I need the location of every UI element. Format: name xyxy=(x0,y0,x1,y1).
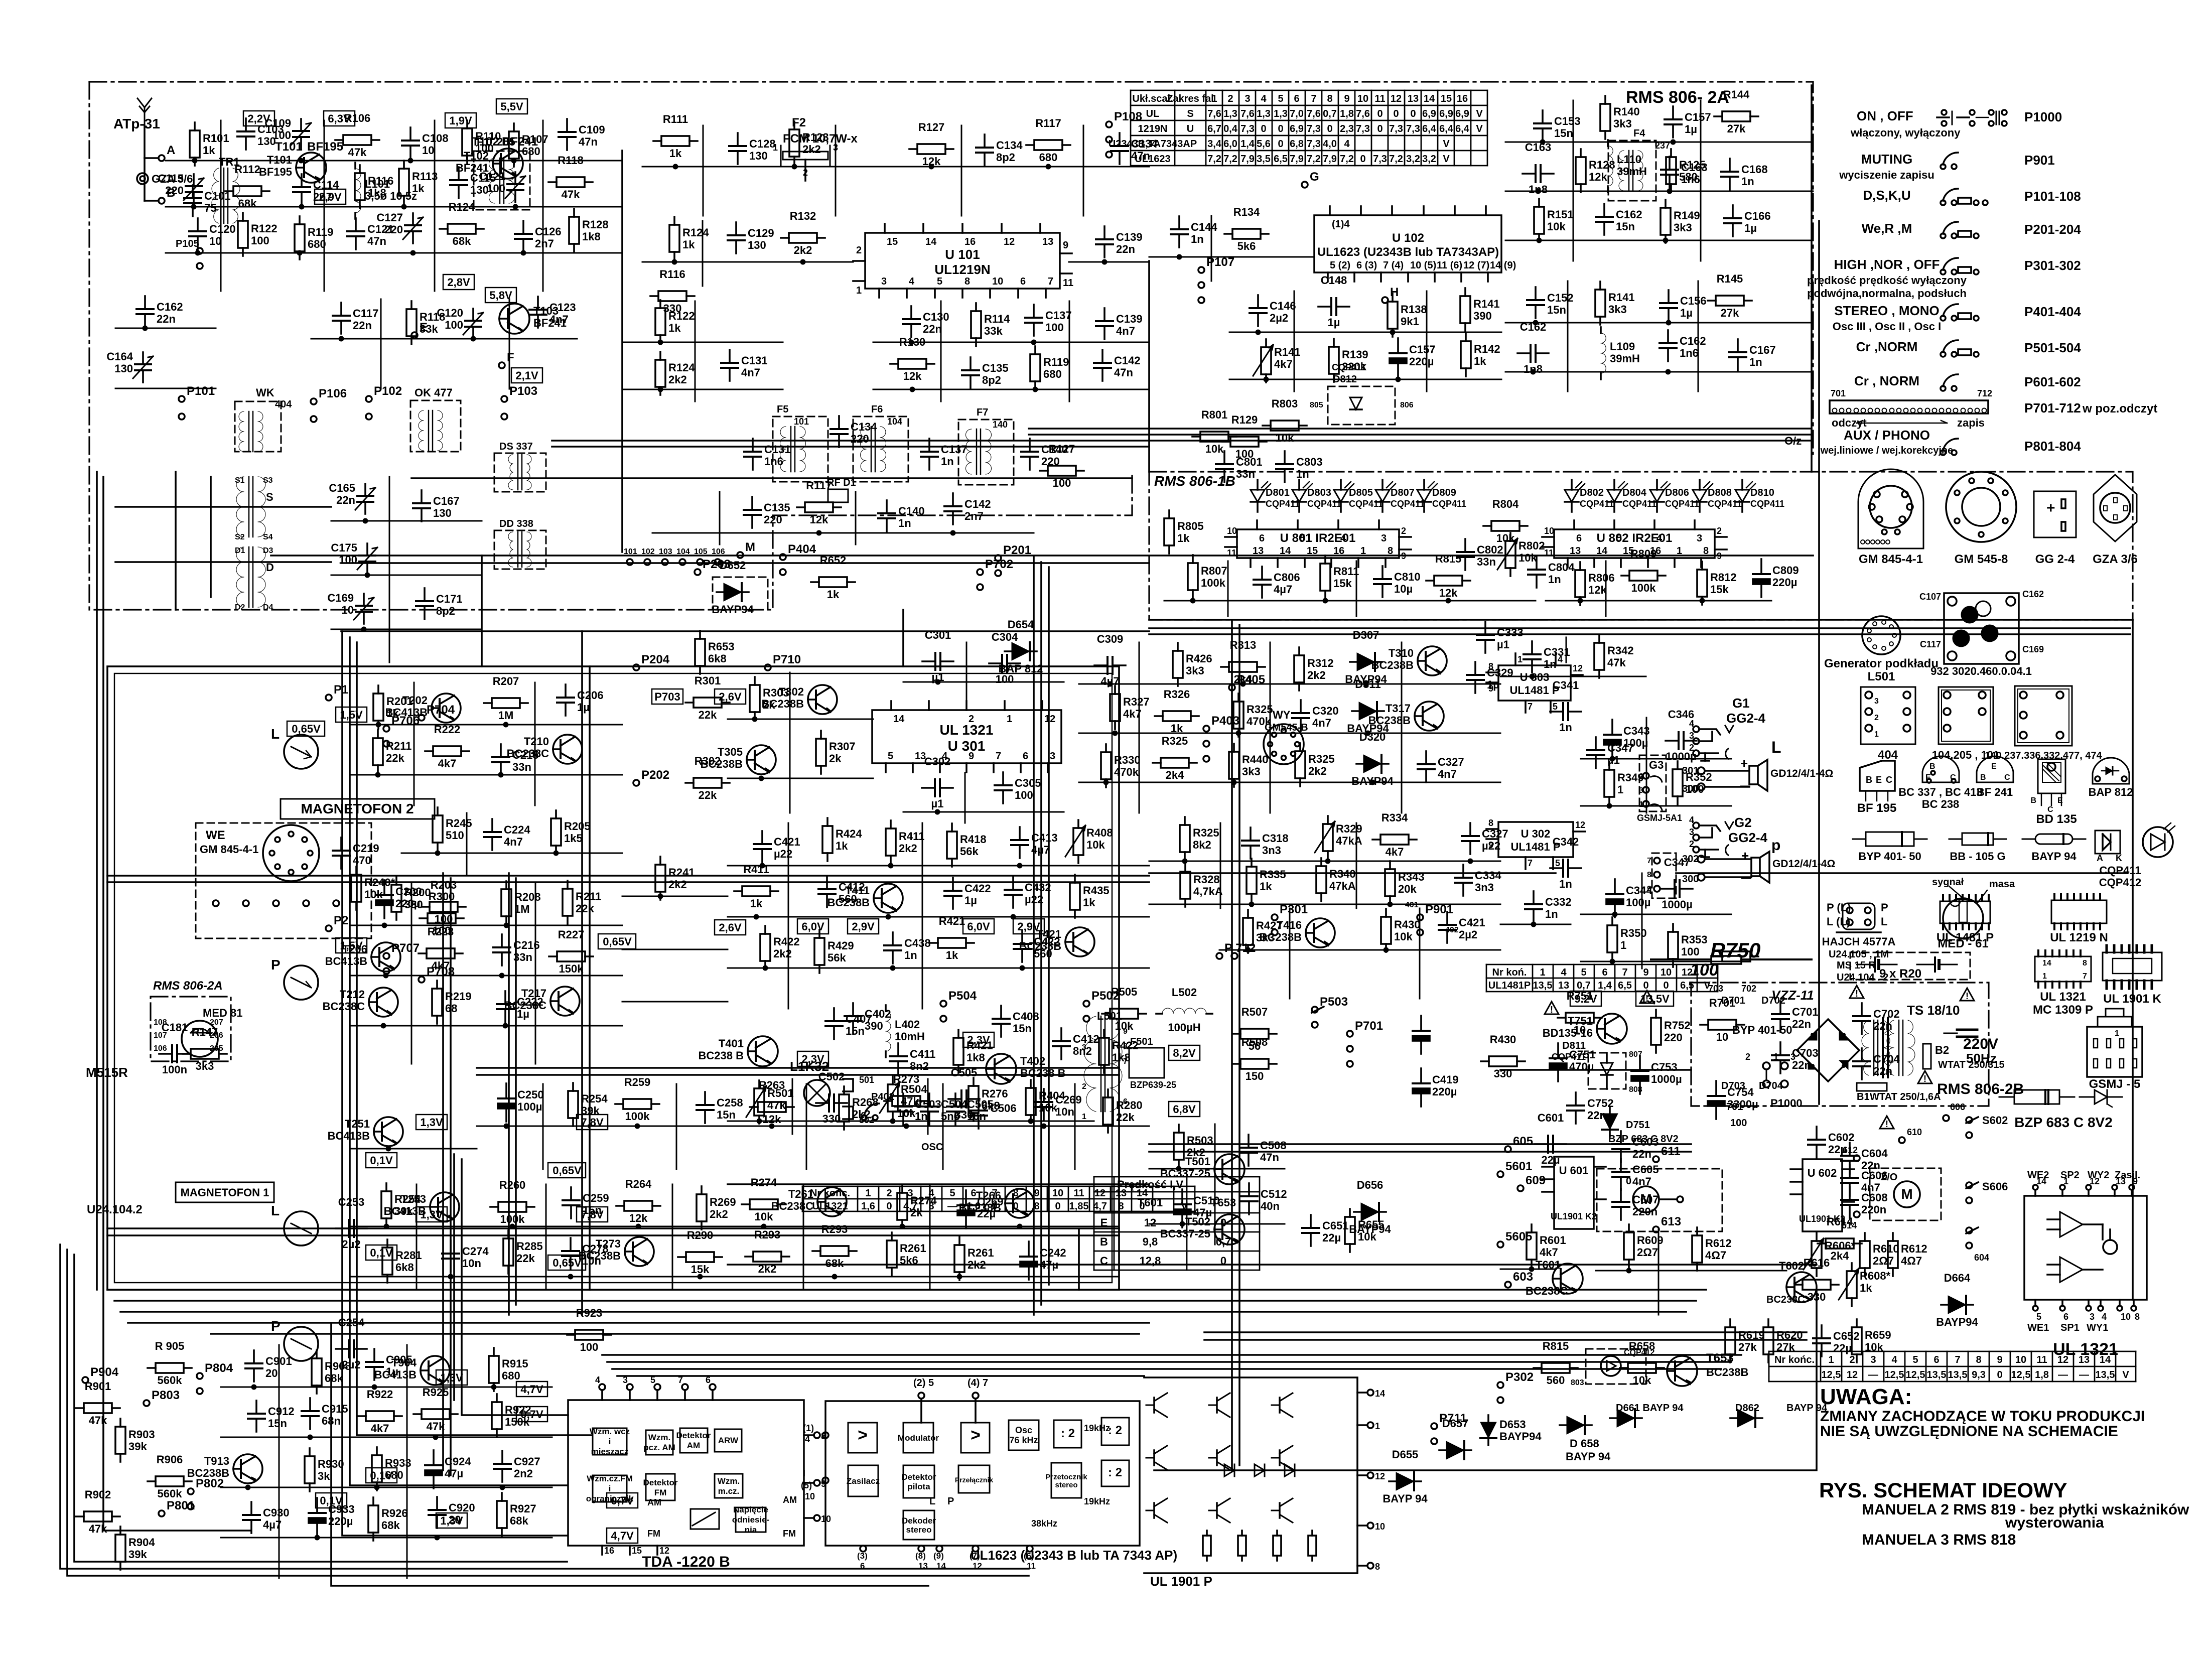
transistor BF241 pinout xyxy=(1977,756,2013,798)
svg-text:B: B xyxy=(2030,796,2036,805)
svg-text:2µ2: 2µ2 xyxy=(342,1238,360,1251)
svg-text:R119: R119 xyxy=(1043,356,1069,368)
svg-text:27k: 27k xyxy=(1776,1341,1795,1353)
svg-text:UL1481P: UL1481P xyxy=(1488,980,1531,991)
node legend WeRM P201-204 xyxy=(1862,221,2082,238)
transistor T913 xyxy=(187,1454,262,1490)
capacitor C502 xyxy=(816,1070,847,1125)
resistor R926 xyxy=(368,1497,408,1541)
svg-text:D320: D320 xyxy=(1359,731,1386,743)
svg-text:5: 5 xyxy=(1581,967,1586,978)
capacitor C508 xyxy=(1240,1135,1287,1166)
svg-text:C412: C412 xyxy=(1073,1033,1099,1045)
svg-text:Detektor: Detektor xyxy=(902,1472,936,1482)
node T102 labels xyxy=(472,135,538,149)
connector P103 xyxy=(501,384,537,420)
transistor T310 xyxy=(1371,646,1447,675)
capacitor C804 xyxy=(1528,557,1575,588)
svg-text:Generator podkładu: Generator podkładu xyxy=(1824,657,1939,670)
svg-text:R435: R435 xyxy=(1083,884,1110,897)
svg-text:680: 680 xyxy=(1039,151,1058,164)
wire cluster row xyxy=(351,1025,622,1027)
svg-text:R752: R752 xyxy=(1664,1019,1691,1032)
resistor R222 xyxy=(425,723,469,770)
resistor R142 xyxy=(1461,333,1500,376)
node 100 junction xyxy=(1730,1118,1747,1129)
svg-text:1n: 1n xyxy=(1749,356,1762,368)
capacitor C402 xyxy=(845,1003,891,1034)
svg-text:A: A xyxy=(167,144,175,157)
svg-text:R750: R750 xyxy=(1710,938,1760,962)
svg-text:BB - 105 G: BB - 105 G xyxy=(1950,850,2005,863)
svg-text:10: 10 xyxy=(1357,93,1368,104)
voltage 1.9V xyxy=(445,113,476,128)
transistor T751 BD135-16 xyxy=(1543,991,1674,1044)
voltage label 2,6V xyxy=(715,689,746,704)
svg-text:WTAT 250/315: WTAT 250/315 xyxy=(1938,1059,2005,1070)
wire bus4 xyxy=(96,472,98,1290)
node MANUELA 2 line xyxy=(1862,1501,2189,1518)
wire bus60 xyxy=(728,1264,1817,1266)
svg-text:3k: 3k xyxy=(318,1470,330,1482)
svg-text:P601-602: P601-602 xyxy=(2024,374,2081,389)
svg-text:SP2: SP2 xyxy=(2060,1170,2080,1181)
svg-text:C320: C320 xyxy=(1312,705,1339,717)
svg-text:603: 603 xyxy=(1513,1270,1533,1284)
svg-text:1,8: 1,8 xyxy=(2035,1369,2049,1380)
svg-text:BC238B: BC238B xyxy=(1371,659,1414,671)
trimmer capacitor C175 xyxy=(331,541,377,578)
svg-text:1,5V: 1,5V xyxy=(340,709,363,721)
wire bus43 xyxy=(450,878,452,1475)
capacitor C140 xyxy=(1021,439,1068,470)
svg-text:CQP411: CQP411 xyxy=(1622,499,1656,509)
svg-text:We,R ,M: We,R ,M xyxy=(1862,221,1912,236)
svg-text:0,1V: 0,1V xyxy=(320,1494,343,1507)
wire cluster column xyxy=(406,1345,408,1578)
svg-text:F5: F5 xyxy=(777,404,788,415)
svg-text:9: 9 xyxy=(1344,93,1349,104)
svg-text:P711: P711 xyxy=(1439,1412,1467,1425)
resistor R616 xyxy=(1794,1257,1839,1303)
resistor R261 xyxy=(887,1232,926,1276)
svg-text:C162: C162 xyxy=(1680,335,1706,347)
svg-text:WTAT 250/1,6A: WTAT 250/1,6A xyxy=(1870,1091,1941,1102)
svg-text:C171: C171 xyxy=(436,593,463,605)
svg-text:P702: P702 xyxy=(985,558,1013,571)
svg-text:6k8: 6k8 xyxy=(982,1099,1000,1112)
svg-text:R440: R440 xyxy=(1242,753,1269,766)
connector P702 xyxy=(977,558,1013,590)
capacitor C108 xyxy=(402,127,449,163)
svg-text:5: 5 xyxy=(949,1188,955,1199)
svg-text:C703: C703 xyxy=(1792,1047,1819,1059)
svg-text:BC413B: BC413B xyxy=(328,1130,370,1142)
microphone MED81 xyxy=(182,1007,242,1057)
node 5601 contact xyxy=(1497,1160,1532,1177)
wire bus36 xyxy=(1029,434,1812,436)
svg-text:B: B xyxy=(1929,762,1935,771)
svg-text:12k: 12k xyxy=(1589,171,1607,183)
wire cluster row xyxy=(1505,240,1813,241)
capacitor C135 xyxy=(962,357,1009,388)
resistor R658 xyxy=(1620,1340,1664,1387)
capacitor C278 xyxy=(562,1238,609,1279)
voltage label 4,7V xyxy=(607,1528,638,1543)
resistor R328 xyxy=(1180,864,1223,907)
svg-text:8: 8 xyxy=(1327,93,1332,104)
svg-text:100: 100 xyxy=(1045,321,1064,334)
wire cluster row xyxy=(1505,371,1813,373)
svg-text:1k: 1k xyxy=(836,840,848,852)
wire cluster column xyxy=(1069,301,1070,401)
capacitor C701 xyxy=(1772,1001,1819,1032)
svg-text:U 102: U 102 xyxy=(1392,231,1424,245)
svg-text:12: 12 xyxy=(1044,714,1055,725)
svg-text:C912: C912 xyxy=(268,1405,295,1418)
wire cluster row xyxy=(873,342,1149,343)
svg-text:ATp-31: ATp-31 xyxy=(113,116,160,131)
svg-text:!: ! xyxy=(1923,1074,1926,1084)
svg-text:20k: 20k xyxy=(1398,883,1417,895)
wire cluster row xyxy=(1079,782,1500,783)
wire cluster column xyxy=(380,299,382,389)
capacitor C606 xyxy=(1841,1165,1888,1196)
svg-text:F: F xyxy=(507,351,514,364)
wire bus28 xyxy=(481,556,483,666)
svg-text:P 712: P 712 xyxy=(1224,941,1256,955)
connector P712 xyxy=(1216,941,1256,959)
node MAGNETOFON 1 label xyxy=(176,1182,274,1202)
svg-text:5: 5 xyxy=(2036,1312,2041,1322)
svg-text:611: 611 xyxy=(1661,1145,1681,1158)
transistor T402 BC238B xyxy=(986,1054,1065,1084)
connector A xyxy=(145,125,175,161)
svg-text:100k: 100k xyxy=(1631,582,1656,594)
diode D653 BAYP94 xyxy=(1480,1415,1542,1445)
wire cluster row xyxy=(642,166,1149,168)
op-amp U101 UL1219N xyxy=(853,224,1073,298)
lamp L1K32 xyxy=(804,1080,830,1106)
svg-text:1µ: 1µ xyxy=(1685,123,1697,135)
svg-text:R904: R904 xyxy=(128,1536,155,1549)
svg-text:S606: S606 xyxy=(1982,1180,2008,1193)
capacitor C334 xyxy=(1455,865,1501,896)
svg-text:Wzm.: Wzm. xyxy=(718,1476,740,1486)
svg-text:R313: R313 xyxy=(1230,639,1257,651)
svg-text:C502: C502 xyxy=(818,1070,845,1083)
svg-text:3: 3 xyxy=(1697,533,1702,544)
svg-text:D654: D654 xyxy=(1008,618,1034,631)
capacitor C915 xyxy=(302,1398,348,1440)
svg-text:7: 7 xyxy=(1622,967,1627,978)
svg-text:932 3020.460.0.04.1: 932 3020.460.0.04.1 xyxy=(1930,665,2032,677)
svg-text:i: i xyxy=(609,1484,611,1493)
svg-text:1n: 1n xyxy=(1741,175,1754,188)
svg-text:4: 4 xyxy=(595,1375,600,1385)
capacitor C806 xyxy=(1254,567,1300,598)
wire cluster row xyxy=(1069,261,1149,263)
capacitor C652 xyxy=(1813,1325,1860,1356)
svg-text:BF195: BF195 xyxy=(307,140,343,154)
wire frame indicator section dash-dot border RMS806-1B xyxy=(1149,472,2133,620)
trimmer capacitor C120 xyxy=(437,307,483,341)
svg-text:UL 1901 P: UL 1901 P xyxy=(1150,1574,1212,1589)
voltage label 1,5V xyxy=(336,938,367,953)
wire cluster row xyxy=(115,328,216,329)
svg-text:1000µ: 1000µ xyxy=(1666,750,1697,763)
svg-text:6: 6 xyxy=(1294,93,1299,104)
connector 9323020 tuning block xyxy=(1919,589,2044,677)
svg-text:C332: C332 xyxy=(1545,896,1572,908)
svg-text:15n: 15n xyxy=(1013,1022,1032,1035)
svg-text:C305: C305 xyxy=(1015,777,1041,789)
resistor R325 xyxy=(1180,817,1219,864)
svg-text:C604: C604 xyxy=(1861,1147,1888,1160)
resistor R118 xyxy=(406,301,445,344)
resistor R241 xyxy=(655,857,695,900)
svg-text:4n7: 4n7 xyxy=(549,313,569,326)
svg-text:D810: D810 xyxy=(1750,487,1774,498)
wire cluster row xyxy=(1079,683,1500,685)
svg-text:1k8: 1k8 xyxy=(1112,1051,1131,1064)
wire cluster row xyxy=(311,338,577,340)
resistor R350 xyxy=(1607,917,1647,964)
svg-text:47kA: 47kA xyxy=(1329,880,1356,892)
wire bus52 xyxy=(107,1227,1119,1229)
svg-text:D661 BAYP 94: D661 BAYP 94 xyxy=(1616,1403,1684,1414)
capacitor C305 xyxy=(995,772,1041,803)
svg-text:1n6: 1n6 xyxy=(1680,347,1699,359)
svg-text:A: A xyxy=(2097,853,2103,863)
wire cluster column xyxy=(1270,642,1271,813)
svg-text:100: 100 xyxy=(487,182,505,195)
resistor R801 xyxy=(1192,408,1236,455)
svg-text:R118: R118 xyxy=(558,154,583,167)
wire cluster column xyxy=(324,120,325,291)
wire cluster row xyxy=(221,1437,552,1438)
svg-text:D809: D809 xyxy=(1432,487,1456,498)
voltage label 1,3V xyxy=(436,1513,467,1528)
diode D808 CQP411 xyxy=(1693,480,1742,512)
svg-text:12: 12 xyxy=(1575,820,1585,830)
svg-text:GG 2-4: GG 2-4 xyxy=(2035,552,2075,566)
svg-text:R222: R222 xyxy=(434,723,461,736)
svg-text:19kHz: 19kHz xyxy=(1084,1496,1110,1506)
svg-text:22k: 22k xyxy=(386,752,404,764)
wire frame tuner section dash-dot border RMS806-2A xyxy=(89,82,1813,610)
svg-text:C109: C109 xyxy=(579,123,605,136)
connector E xyxy=(411,321,428,338)
svg-text:1k: 1k xyxy=(412,182,425,195)
diode BZP683C package xyxy=(1999,1090,2122,1130)
capacitor C412 xyxy=(818,876,865,907)
svg-text:2: 2 xyxy=(886,1188,892,1199)
voltage label 7,8V xyxy=(577,1115,608,1130)
wire bus12 xyxy=(128,1322,1149,1324)
wire bus5 xyxy=(103,477,251,1531)
wire cluster column xyxy=(835,125,837,216)
svg-text:47µ: 47µ xyxy=(445,1467,463,1480)
svg-text:15n: 15n xyxy=(1554,127,1573,140)
transformer S coils xyxy=(235,476,273,541)
svg-text:2k2: 2k2 xyxy=(668,373,687,386)
capacitor C751 xyxy=(1550,1043,1596,1081)
svg-text:R127: R127 xyxy=(918,121,945,133)
resistor R285 xyxy=(503,1230,543,1274)
wire cluster row xyxy=(728,968,1149,969)
resistor R130 xyxy=(890,336,934,392)
capacitor C702 xyxy=(1853,1003,1900,1034)
svg-text:L402: L402 xyxy=(895,1018,920,1031)
svg-text:100: 100 xyxy=(251,234,269,247)
antenna ATp-31 xyxy=(137,98,152,125)
svg-text:19kHz: 19kHz xyxy=(1084,1423,1110,1433)
svg-text:R293: R293 xyxy=(754,1228,781,1241)
svg-text:330: 330 xyxy=(404,898,423,911)
svg-text:R751: R751 xyxy=(1567,990,1593,1002)
svg-text:C181: C181 xyxy=(162,1021,188,1034)
svg-text:4,7: 4,7 xyxy=(1093,1201,1107,1212)
capacitor C139 xyxy=(1096,226,1143,264)
capacitor C342 xyxy=(1550,836,1581,890)
svg-text:100: 100 xyxy=(339,554,357,566)
svg-text:UL1623 (U2343B lub TA7343AP): UL1623 (U2343B lub TA7343AP) xyxy=(1317,245,1499,259)
svg-text:C333: C333 xyxy=(1497,626,1524,639)
svg-text:D806: D806 xyxy=(1665,487,1689,498)
svg-text:330: 330 xyxy=(663,302,682,315)
svg-text:T401: T401 xyxy=(719,1037,744,1050)
voltage label 0,7V xyxy=(516,1407,547,1422)
svg-text:13,5: 13,5 xyxy=(2096,1369,2115,1380)
svg-text:10k: 10k xyxy=(1205,443,1224,455)
svg-text:C259: C259 xyxy=(583,1192,609,1204)
svg-text:V: V xyxy=(1443,139,1450,150)
svg-text:C901: C901 xyxy=(265,1355,292,1367)
svg-text:33n: 33n xyxy=(1477,556,1496,568)
svg-text:R276: R276 xyxy=(982,1087,1008,1100)
svg-text:390: 390 xyxy=(1473,310,1492,322)
capacitor C901 xyxy=(245,1350,292,1390)
svg-text:S2: S2 xyxy=(235,533,245,541)
resistor R421 xyxy=(930,915,974,961)
connector P203 xyxy=(695,558,731,575)
wire cluster row xyxy=(1505,322,1813,324)
svg-text:P101: P101 xyxy=(187,384,215,398)
svg-text:14: 14 xyxy=(2042,959,2051,968)
svg-text:S3: S3 xyxy=(263,476,273,485)
svg-text:F7: F7 xyxy=(977,407,988,418)
svg-text:1µ: 1µ xyxy=(1744,222,1757,234)
svg-text:560k: 560k xyxy=(158,1374,183,1387)
svg-text:5k6: 5k6 xyxy=(900,1254,918,1267)
svg-text:H: H xyxy=(1390,286,1399,299)
svg-text:MS 15 R: MS 15 R xyxy=(1837,960,1876,971)
svg-text:C: C xyxy=(1100,1255,1108,1267)
diode D802 CQP411 xyxy=(1565,480,1614,512)
wire bus15 xyxy=(607,1361,1731,1363)
svg-text:7,3: 7,3 xyxy=(1389,123,1403,134)
svg-text:2: 2 xyxy=(969,714,974,725)
svg-text:680: 680 xyxy=(522,145,540,158)
wire cluster row xyxy=(1581,805,1731,807)
wire cluster column xyxy=(702,221,704,286)
wire cluster row xyxy=(903,681,1064,683)
wire bus49 xyxy=(107,881,1149,883)
fuse B2 WTAT250-315 xyxy=(1923,1044,2005,1070)
svg-text:68k: 68k xyxy=(510,1514,528,1527)
resistor R806 xyxy=(1575,562,1615,605)
wire bus45 xyxy=(1149,633,2130,635)
svg-text:T310: T310 xyxy=(1389,647,1414,659)
svg-text:R300: R300 xyxy=(429,890,455,903)
node RMS 806-1B sheet label xyxy=(1154,473,1235,489)
resistor R411 xyxy=(886,820,924,868)
capacitor C341 xyxy=(1550,679,1581,734)
wire bus46 xyxy=(508,873,510,1315)
svg-text:100k: 100k xyxy=(1201,577,1226,589)
svg-text:R505: R505 xyxy=(1111,986,1138,998)
connector osc 501 502 xyxy=(843,1075,874,1125)
svg-text:1: 1 xyxy=(856,285,862,296)
svg-text:CQP411: CQP411 xyxy=(1580,499,1614,509)
svg-text:G3: G3 xyxy=(1649,759,1664,771)
svg-text:R612: R612 xyxy=(1901,1242,1927,1255)
resistor R334 xyxy=(1372,811,1417,858)
svg-text:402: 402 xyxy=(1445,926,1459,934)
svg-text:0: 0 xyxy=(1360,154,1365,165)
svg-text:B: B xyxy=(1866,775,1872,785)
svg-text:T601: T601 xyxy=(1138,1196,1163,1209)
svg-text:R293: R293 xyxy=(821,1223,848,1235)
svg-text:3n3: 3n3 xyxy=(1262,844,1281,857)
svg-text:BC238B: BC238B xyxy=(1706,1366,1748,1378)
svg-text:P710: P710 xyxy=(773,653,801,666)
svg-text:0: 0 xyxy=(1393,108,1399,119)
svg-text:RMS 806- 2A: RMS 806- 2A xyxy=(1626,88,1729,107)
node warning triangles xyxy=(1545,986,1974,1129)
svg-text:6,9: 6,9 xyxy=(1439,108,1453,119)
op-amp U801 IR2E01 xyxy=(1225,520,1411,567)
wire cluster row xyxy=(351,1148,477,1150)
svg-text:7,8V: 7,8V xyxy=(581,1208,604,1221)
svg-text:C162: C162 xyxy=(2022,589,2044,599)
resistor R809 xyxy=(1621,547,1666,594)
resistor R140 xyxy=(1600,96,1640,139)
svg-text:220n: 220n xyxy=(1632,1205,1657,1218)
svg-text:0: 0 xyxy=(1410,108,1416,119)
svg-text:47k: 47k xyxy=(1607,656,1626,669)
svg-text:39k: 39k xyxy=(128,1440,147,1453)
resistor R908 xyxy=(312,1350,351,1394)
svg-text:R608*: R608* xyxy=(1860,1270,1891,1282)
connector P804 xyxy=(197,1361,233,1394)
svg-text:10k: 10k xyxy=(1115,1020,1134,1032)
resistor R293 xyxy=(745,1228,789,1275)
svg-text:BC238C: BC238C xyxy=(323,1000,365,1013)
capacitor C137 xyxy=(1025,305,1072,345)
svg-text:Przełącznik: Przełącznik xyxy=(955,1476,993,1484)
connector G1 jack xyxy=(1689,719,1733,761)
svg-text:1,3V: 1,3V xyxy=(420,1208,443,1221)
svg-text:8p2: 8p2 xyxy=(996,151,1015,164)
svg-text:UL1219N: UL1219N xyxy=(934,262,990,277)
svg-text:P401-404: P401-404 xyxy=(2024,304,2081,319)
svg-text:C120: C120 xyxy=(437,307,463,319)
svg-text:10n: 10n xyxy=(462,1257,481,1270)
svg-text:712: 712 xyxy=(1977,388,1992,398)
svg-text:16: 16 xyxy=(1333,545,1344,557)
